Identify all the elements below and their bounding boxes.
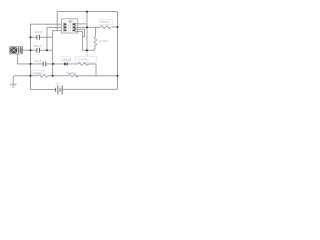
crystal earphone E1 body (10, 47, 23, 54)
resistor R2 zigzag (68, 74, 78, 77)
wire R row from transformer tap 2 to resistor R4 (75, 26, 100, 28)
svg-text:100 pF: 100 pF (33, 44, 41, 48)
transformer T1 core lines (69, 23, 70, 32)
wire detector row with capacitor C3 (31, 63, 65, 65)
wire left rail (30, 24, 32, 89)
label box R4 47kOhm (99, 19, 112, 24)
node x52.5 detector row (52, 63, 54, 65)
wire earphone right lead to left rail (23, 49, 31, 51)
ground GND (10, 76, 17, 88)
wire transformer left tap 1 to left rail (31, 23, 65, 25)
wire node x96 down to lower bus (95, 64, 97, 76)
node left rail C2 (30, 49, 32, 51)
battery B1 (56, 85, 62, 94)
resistor R5 1k vertical zigzag (94, 37, 97, 45)
resistor R4 47k zigzag (100, 26, 111, 29)
wire y50 link to resistor R5 bottom (82, 45, 95, 50)
wire lower bus left rail to resistor R1 (31, 75, 39, 77)
svg-text:7.5kOhm: 7.5kOhm (32, 72, 42, 75)
node left rail lower bus (30, 75, 32, 77)
wire bottom bus right of battery (62, 88, 117, 90)
node left rail detector row (30, 63, 32, 65)
transformer T1 left winding (63, 23, 65, 32)
wire x87 drop from top bus to base node (86, 12, 88, 51)
resistor R3 2.2k zigzag (78, 62, 89, 65)
capacitor C1 plates (37, 35, 40, 40)
node x47 C2 (46, 49, 48, 51)
capacitor C2 plates (37, 48, 40, 53)
svg-text:47kOhm: 47kOhm (100, 21, 109, 24)
wire transformer right tap 3 short corner (75, 29, 85, 36)
wire lower bus with ground stub (13, 75, 30, 77)
svg-text:1N34A: 1N34A (63, 58, 71, 61)
wire capacitor C2 row (31, 49, 53, 51)
svg-text:.05 µF: .05 µF (34, 59, 42, 63)
svg-text:3.3kOhm: 3.3kOhm (66, 72, 76, 75)
label box R3 2.2 kOhm (76, 56, 97, 62)
wire transformer left tap 3 corner down at x52.5 (53, 31, 64, 76)
node lower bus right rail (117, 75, 119, 77)
wire R5 top lead from R row (94, 27, 96, 37)
wire transformer left tap 2 corner down at x47 (47, 27, 64, 50)
transformer T1 body (61, 19, 77, 33)
label box R1 7.5kOhm (32, 71, 45, 75)
wire earphone bottom lead down to detector row (18, 54, 31, 64)
svg-text:100 pF: 100 pF (35, 30, 43, 34)
node R row right rail (117, 26, 119, 28)
wire capacitor C1 row (31, 36, 53, 38)
diode D1 1N34A (64, 62, 67, 65)
wire left drop from top bus to transformer bottom-left tap (56, 12, 58, 31)
resistor R1 zigzag (38, 74, 48, 77)
wire top bus from node above T1 to right rail (57, 11, 117, 13)
node R row x87 (86, 26, 88, 28)
capacitor C3 plates (43, 62, 46, 67)
wire diode cathode to resistor R3 (68, 63, 79, 65)
wire right rail (117, 12, 119, 90)
node base link x87 y50 (86, 49, 88, 51)
svg-text:3 V: 3 V (56, 83, 60, 86)
node top bus x87 (86, 11, 88, 13)
wire lower bus to right rail (76, 75, 118, 77)
node left rail C1 (30, 36, 32, 38)
wire transformer right tap 4 corner down to y50 link (75, 31, 82, 50)
wire lower bus between R1 and R2 (48, 75, 68, 77)
wire R4 to right rail (112, 26, 118, 28)
svg-text:2.2 kOhm: 2.2 kOhm (77, 57, 88, 61)
wire R3 to node at x96 (89, 63, 97, 65)
label box D1 1N34A (62, 57, 71, 61)
node x52.5 lower bus (52, 75, 54, 77)
wire bottom bus left of battery (31, 89, 56, 91)
wire transformer right tap 1 to x87 drop (75, 23, 87, 25)
transformer T1 right winding (74, 23, 76, 32)
svg-text:1 K Ohm: 1 K Ohm (98, 40, 108, 43)
